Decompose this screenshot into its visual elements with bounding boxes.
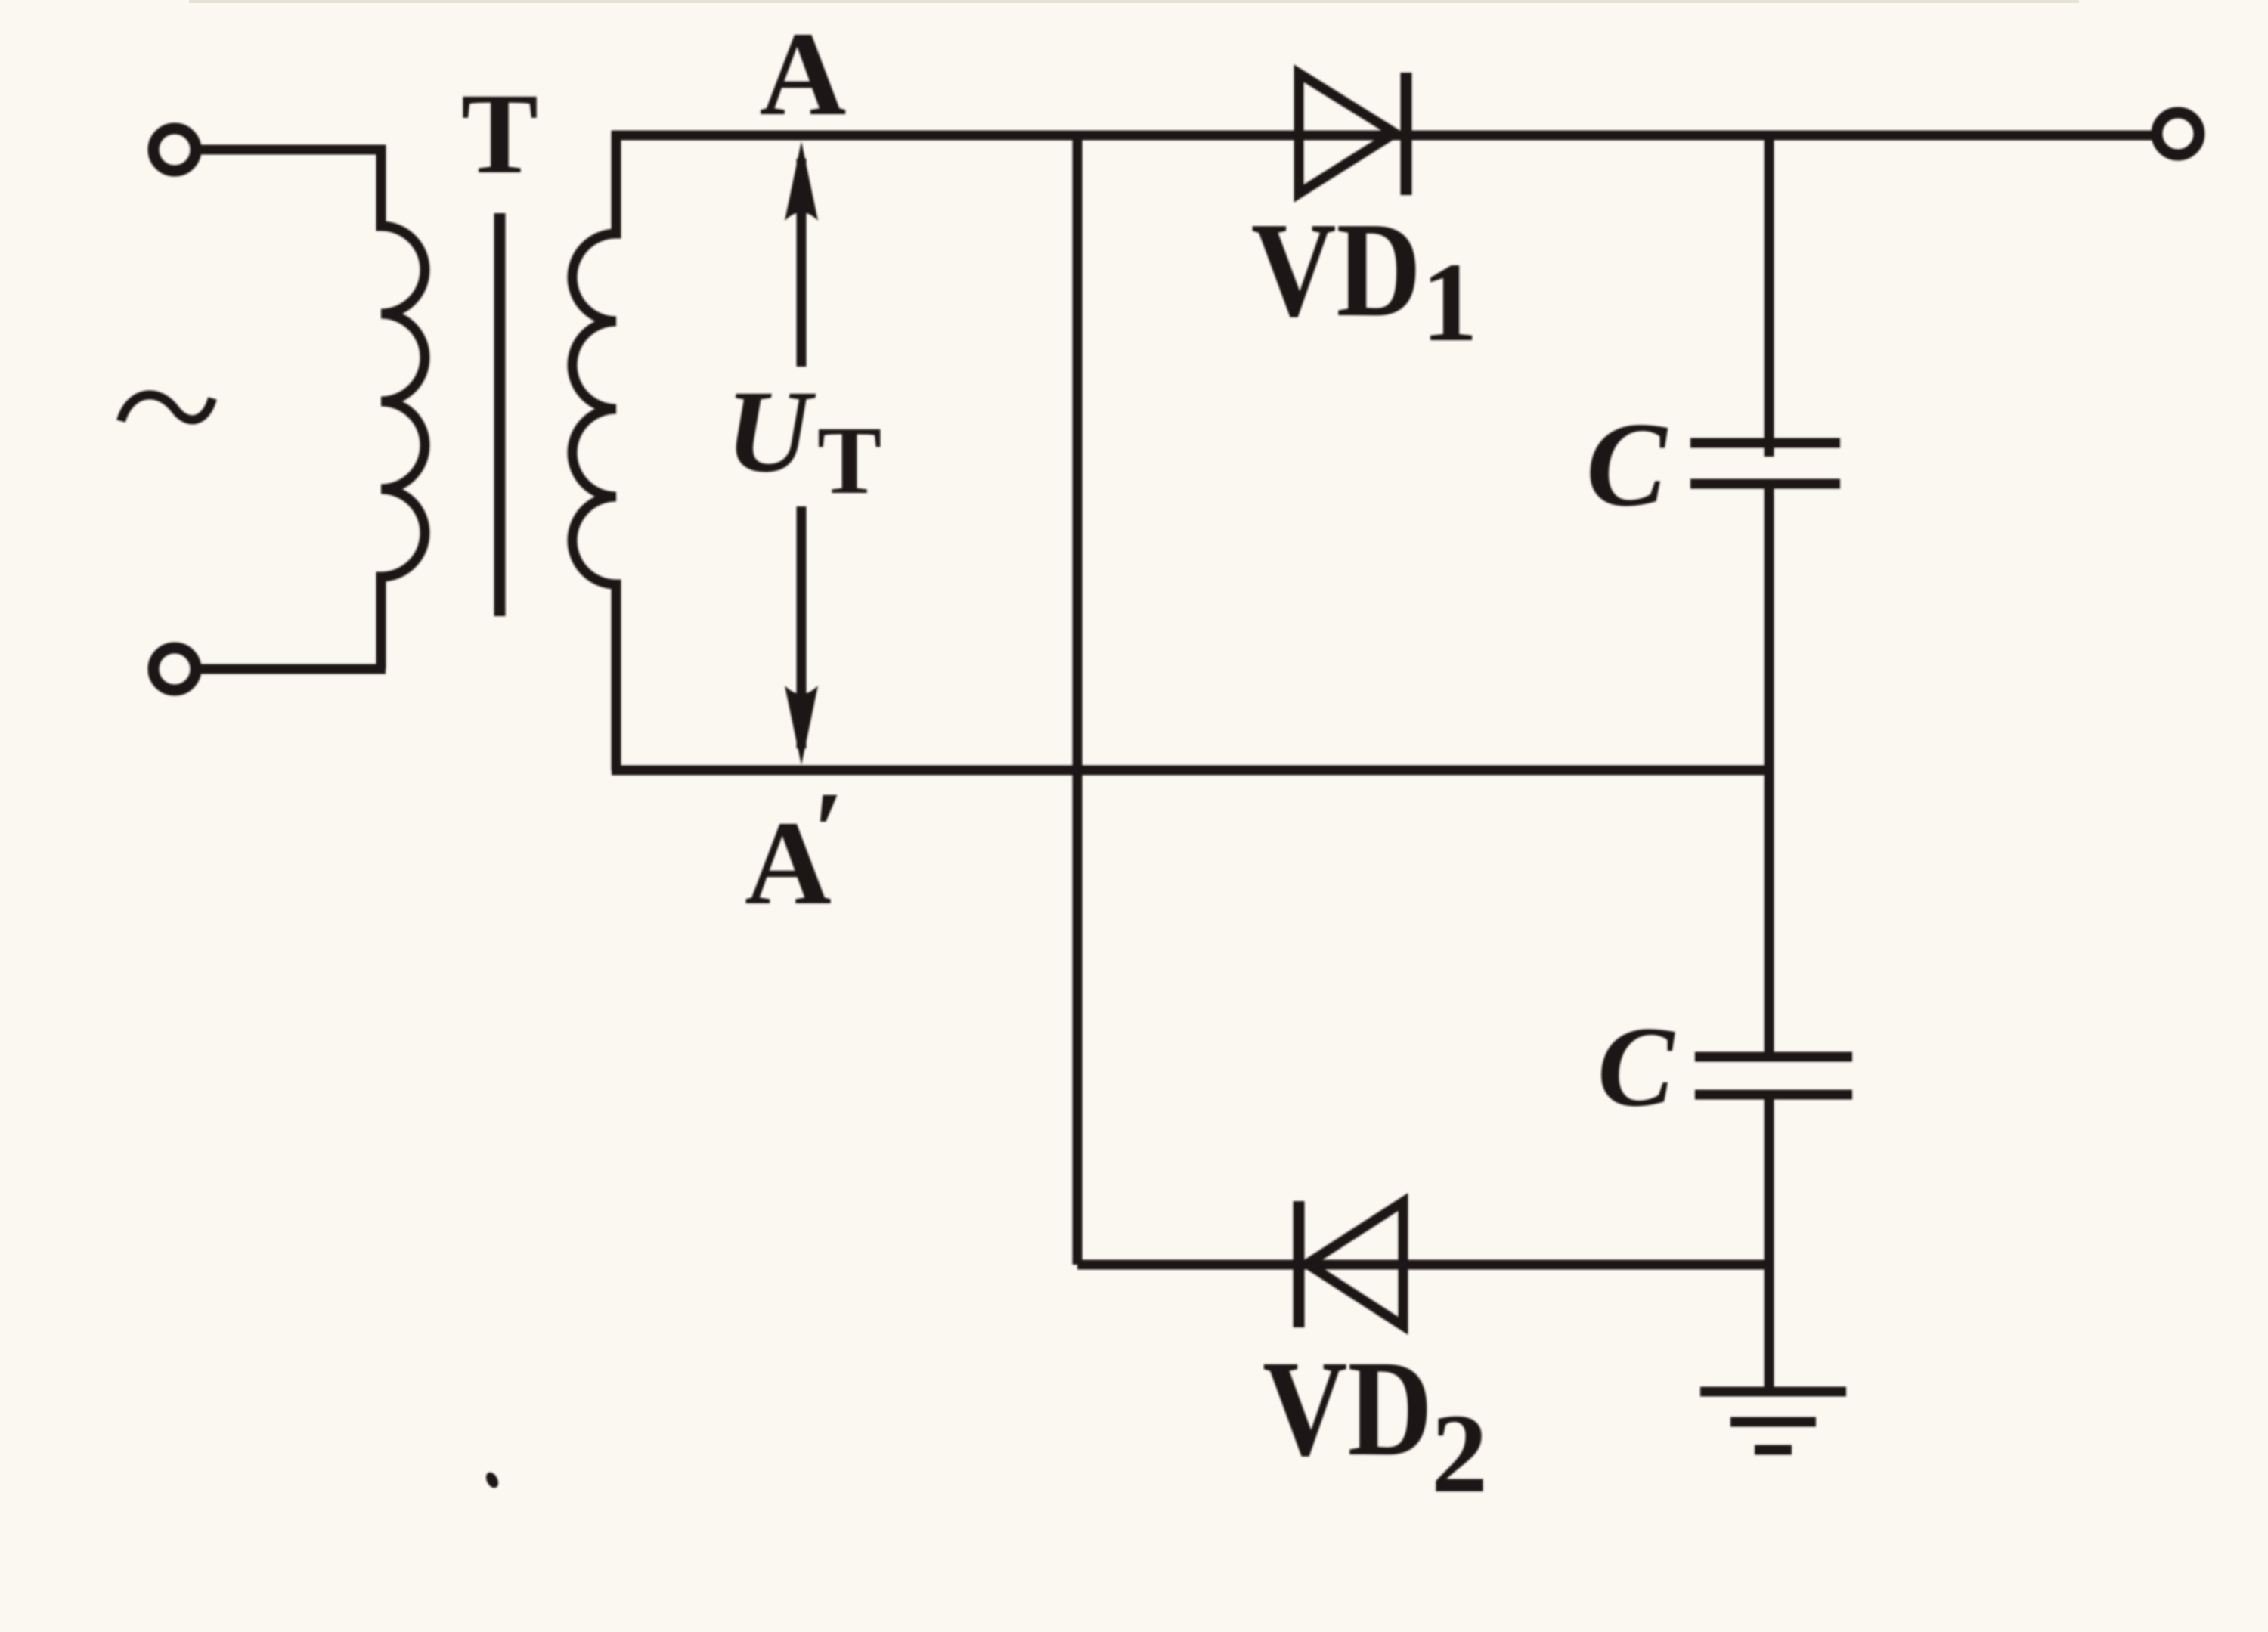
wire AC input bottom	[198, 664, 386, 674]
svg-text:U: U	[726, 366, 816, 497]
wire AC input top	[198, 145, 386, 155]
node A-prime label	[745, 769, 844, 930]
diode VD1	[1299, 73, 1406, 195]
terminal AC input top	[153, 129, 196, 171]
svg-text:T: T	[461, 70, 538, 198]
transformer core	[494, 213, 506, 616]
voltage UT arrow upper	[785, 141, 818, 367]
wire center junction vertical	[1073, 135, 1083, 1265]
svg-text:C: C	[1586, 397, 1668, 531]
svg-text:′: ′	[813, 769, 844, 894]
scan edge artifact top	[189, 0, 2079, 3]
label VD2	[1263, 1333, 1488, 1516]
transformer T primary winding	[381, 145, 425, 669]
AC source tilde symbol	[121, 395, 212, 421]
svg-text:VD: VD	[1251, 194, 1421, 345]
svg-text:VD: VD	[1263, 1333, 1433, 1485]
voltage UT arrow lower	[785, 506, 818, 765]
svg-text:T: T	[817, 407, 881, 514]
scan speck	[484, 1470, 501, 1490]
svg-text:A: A	[760, 8, 847, 141]
label UT	[726, 366, 881, 514]
wire between C1 and C2	[1765, 484, 1774, 1057]
wire node A top rail	[612, 131, 2154, 141]
terminal AC input bottom	[153, 648, 196, 690]
wire right branch vertical upper	[1765, 135, 1774, 457]
wire C2 to ground	[1765, 1095, 1774, 1389]
svg-text:1: 1	[1421, 240, 1478, 365]
svg-text:2: 2	[1431, 1391, 1488, 1516]
svg-text:C: C	[1597, 1003, 1675, 1130]
transformer T secondary winding	[572, 131, 616, 770]
diode VD2	[1299, 1201, 1403, 1327]
capacitor C1	[1690, 443, 1840, 484]
output terminal	[2157, 113, 2199, 155]
capacitor C2	[1695, 1057, 1852, 1095]
wire VD2 rail	[1077, 1260, 1769, 1270]
wire A-prime rail	[612, 766, 1769, 776]
label VD1	[1251, 194, 1478, 365]
ground	[1700, 1392, 1846, 1450]
